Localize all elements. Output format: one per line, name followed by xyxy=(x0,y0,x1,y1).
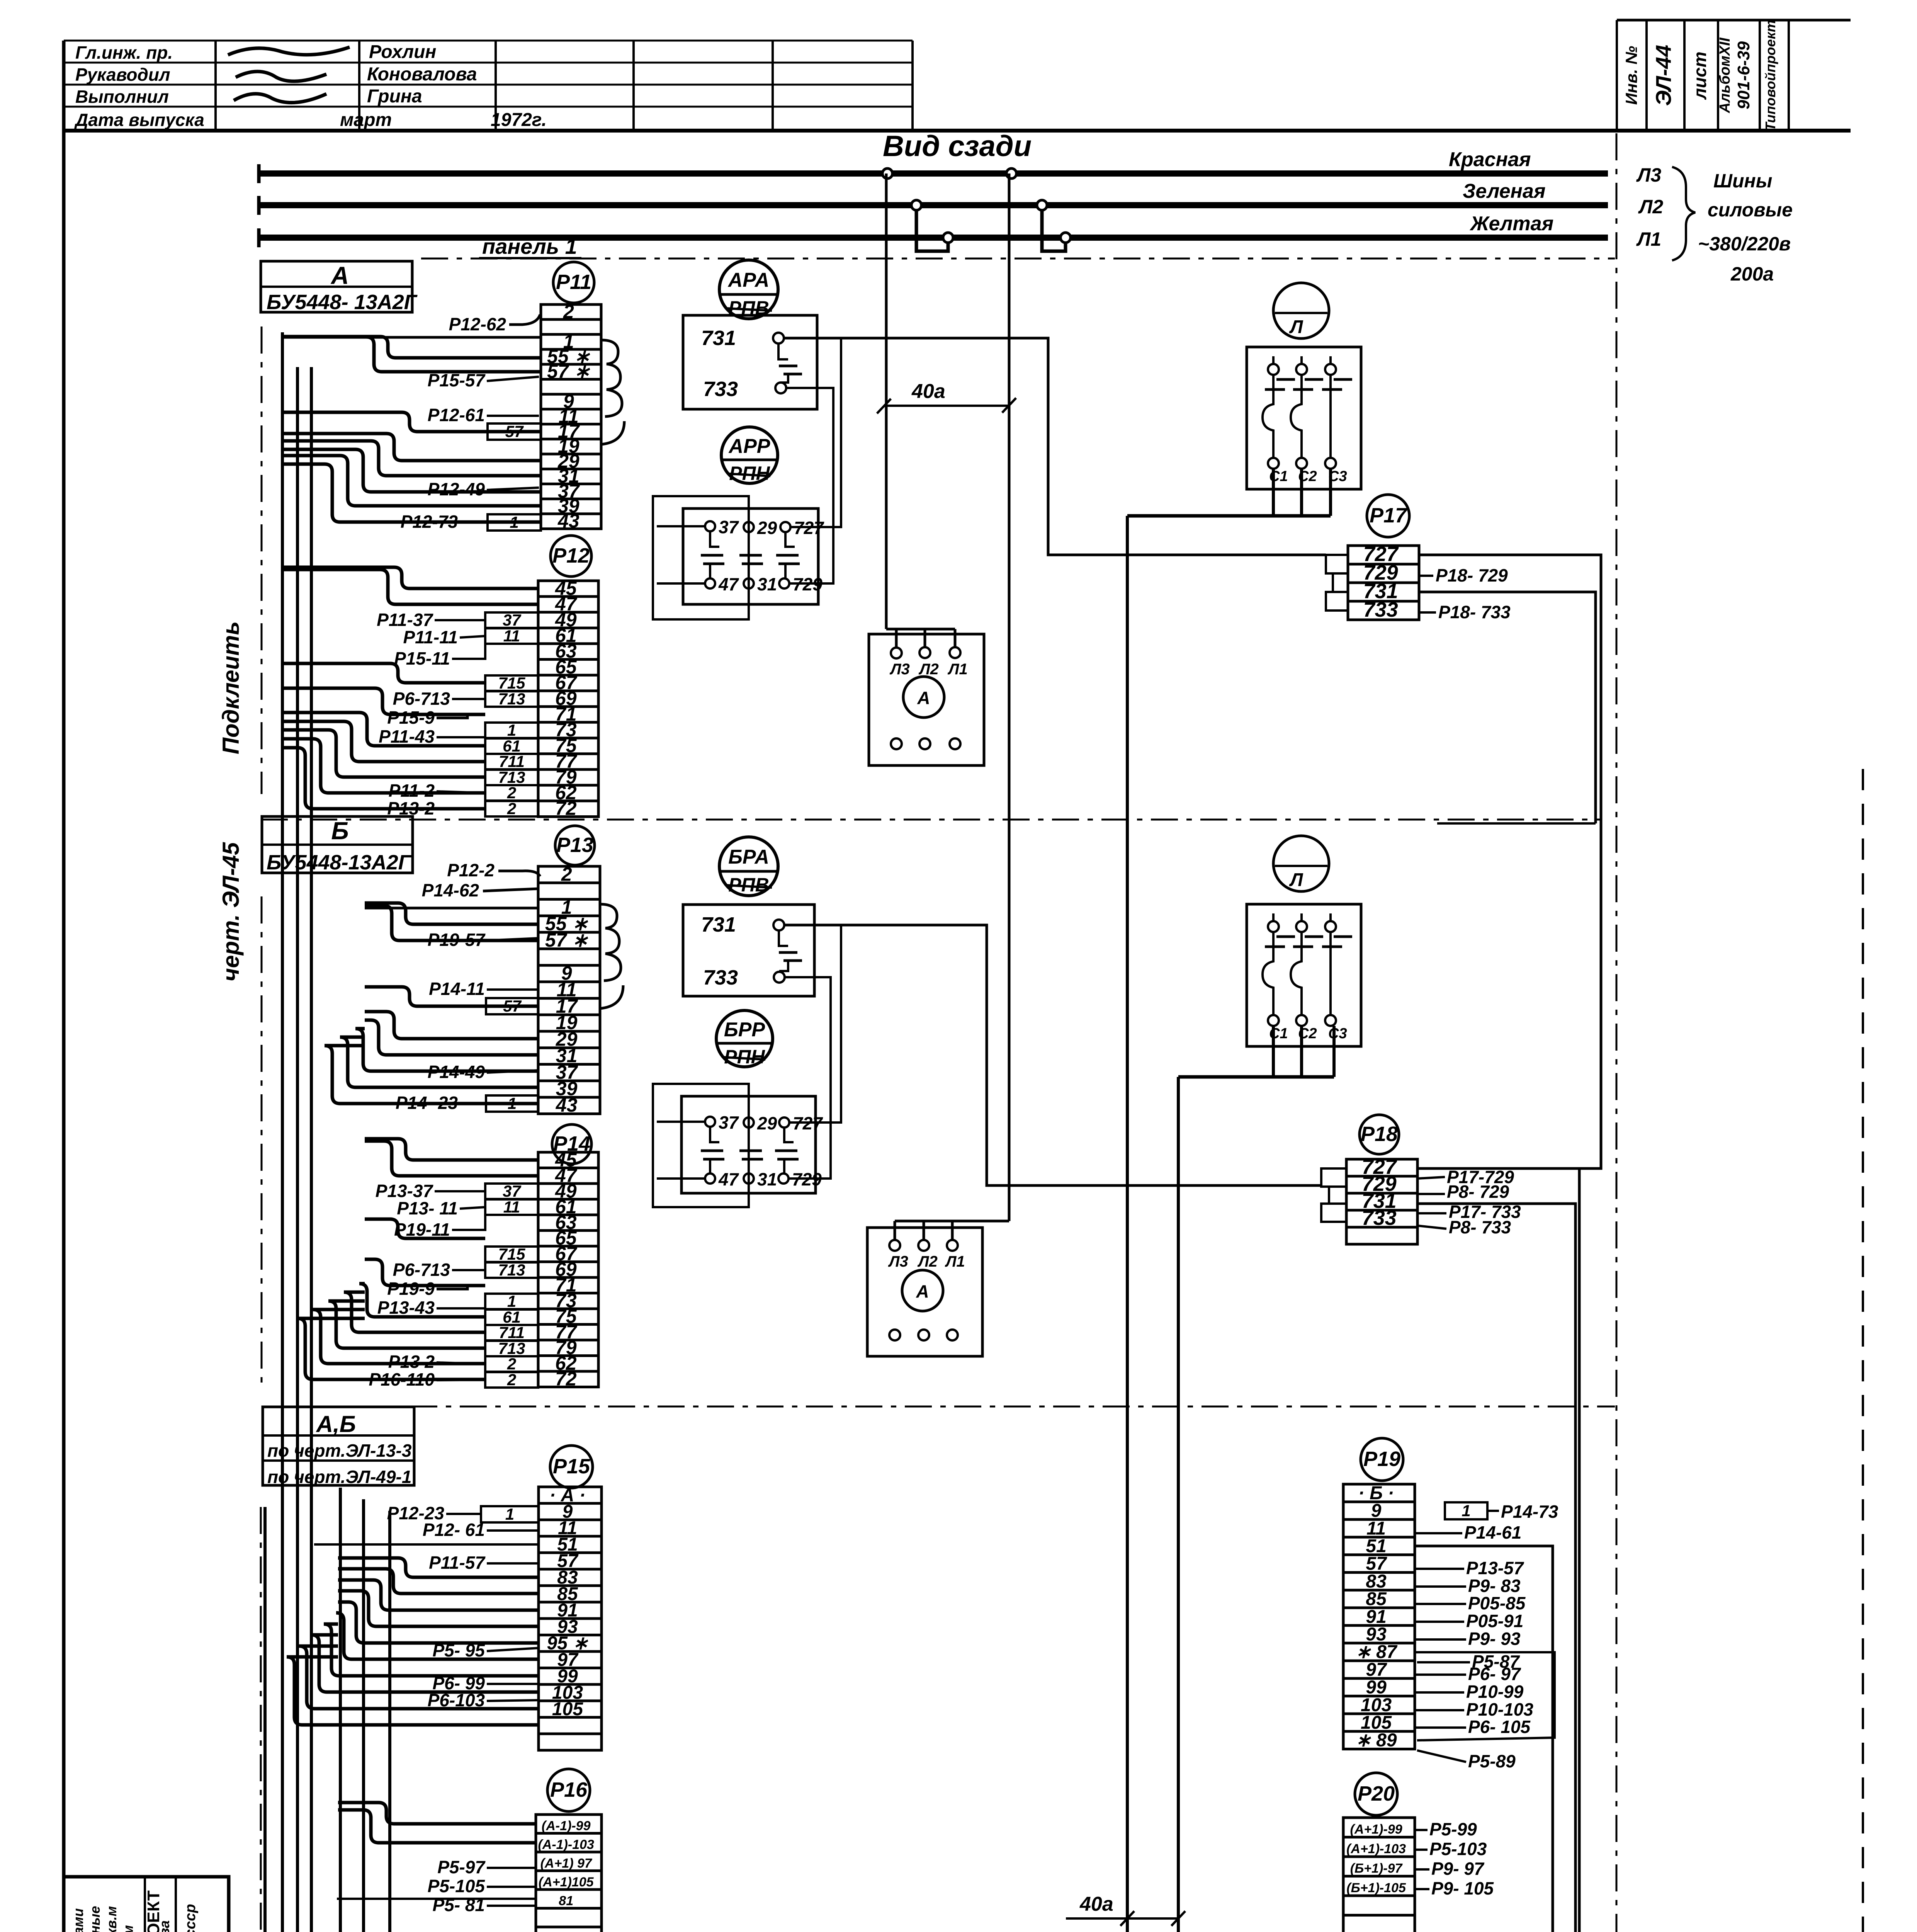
svg-text:С3: С3 xyxy=(1328,1026,1347,1042)
contact terminal 47 Б xyxy=(705,1173,715,1184)
lamp switch box Б xyxy=(1247,904,1361,1046)
ammeter А dial xyxy=(903,677,944,718)
svg-text:733: 733 xyxy=(1363,598,1398,621)
terminal box 61 on Р14 xyxy=(485,1310,538,1325)
Р18 left bracket steps xyxy=(1321,1168,1346,1187)
terminal box 11 on Р12 xyxy=(485,628,538,644)
terminal strip Р13 group xyxy=(396,826,600,1116)
wire into Р15 row 51 xyxy=(314,1543,539,1546)
contact symbol column 2 А xyxy=(748,532,750,547)
terminal strip Р14 group xyxy=(369,1124,598,1389)
svg-text:11: 11 xyxy=(503,627,520,645)
svg-text:Р8- 729: Р8- 729 xyxy=(1447,1182,1509,1202)
terminal strip Р15 group xyxy=(387,1446,602,1750)
svg-text:АРР: АРР xyxy=(728,435,770,457)
wire contact 47 А to left xyxy=(657,582,705,585)
chain border between sections Б and А,Б xyxy=(262,1406,1615,1408)
svg-text:733: 733 xyxy=(1362,1206,1397,1230)
svg-text:Коновалова: Коновалова xyxy=(367,64,477,85)
svg-text:901-6-39: 901-6-39 xyxy=(1734,41,1753,109)
terminal box 1 on Р13 xyxy=(486,1095,538,1112)
svg-text:(Б+1)-97: (Б+1)-97 xyxy=(1350,1861,1403,1876)
svg-text:711: 711 xyxy=(499,752,525,770)
trunk wire vertical 2 xyxy=(310,367,313,1932)
svg-text:200а: 200а xyxy=(1730,263,1774,285)
chain border right vertical xyxy=(1616,133,1618,1932)
svg-text:43: 43 xyxy=(557,510,580,532)
svg-text:Р11-11: Р11-11 xyxy=(403,627,458,647)
svg-text:Л2: Л2 xyxy=(918,661,939,678)
connector designator circle Р17 xyxy=(1367,495,1409,537)
svg-text:Р9- 105: Р9- 105 xyxy=(1431,1878,1494,1898)
contact terminal 727 Б xyxy=(779,1117,789,1128)
svg-text:715: 715 xyxy=(498,674,525,692)
terminal strip Р16 group xyxy=(428,1769,602,1932)
svg-text:Р6-713: Р6-713 xyxy=(393,1260,450,1280)
wire Р19 row87 loop to row89 xyxy=(1415,1652,1555,1740)
svg-text:715: 715 xyxy=(498,1245,525,1263)
signature scribble 1 xyxy=(228,47,350,55)
chain border left vertical upper xyxy=(261,327,263,794)
svg-text:Р19-9: Р19-9 xyxy=(387,1279,435,1299)
terminal box 713 on Р14 xyxy=(485,1262,538,1278)
switch pole 2 А xyxy=(1296,364,1307,375)
chain border between sections А and Б xyxy=(261,819,1600,821)
svg-text:г.Москва: г.Москва xyxy=(156,1920,172,1932)
svg-text:А: А xyxy=(916,1281,929,1301)
auxiliary contact block Б xyxy=(653,1084,749,1207)
terminal strip Р18 group xyxy=(1321,1115,1521,1244)
svg-text:∗ 89: ∗ 89 xyxy=(1356,1730,1397,1751)
panel header box А,Б xyxy=(263,1407,414,1485)
lamp Б pole drops xyxy=(1272,1026,1275,1077)
terminal strip Р11 group xyxy=(401,262,601,532)
wire Р19 row51 right down xyxy=(1415,1546,1553,1932)
svg-text:Б: Б xyxy=(331,817,348,845)
svg-text:Р14-73: Р14-73 xyxy=(1501,1502,1558,1522)
relay designator АРР/РПН xyxy=(721,427,778,483)
svg-text:с деревянным каркасом: с деревянным каркасом xyxy=(120,1925,136,1932)
svg-text:БУ5448-13А2Г: БУ5448-13А2Г xyxy=(267,851,412,874)
svg-text:29: 29 xyxy=(757,1113,777,1133)
panel header box Б xyxy=(262,816,413,873)
wire 731 Б to Р18 xyxy=(784,925,1321,1185)
terminal strip Р17 body xyxy=(1348,546,1419,620)
svg-text:(Б+1)-105: (Б+1)-105 xyxy=(1346,1881,1406,1895)
terminal box 61 on Р12 xyxy=(485,738,538,754)
trunk wire vertical 4 xyxy=(362,1499,365,1932)
wire bundle into Р11 upper xyxy=(284,336,541,339)
chain border left vertical lower xyxy=(260,1507,262,1932)
terminal box 2 on Р12 row72 xyxy=(485,801,538,816)
svg-text:~380/220в: ~380/220в xyxy=(1698,233,1791,255)
junction dot Л1-Б xyxy=(1060,233,1071,243)
terminal strip Р14 body xyxy=(538,1152,598,1387)
svg-text:Л1: Л1 xyxy=(945,1253,965,1270)
ammeter А terminal Л3 xyxy=(891,648,902,658)
svg-text:57 ∗: 57 ∗ xyxy=(547,361,590,382)
svg-text:43: 43 xyxy=(556,1094,578,1116)
wire contact 47 Б to left xyxy=(657,1177,705,1180)
wire chain into trunk at 2131 xyxy=(1437,822,1596,825)
svg-text:Р05-91: Р05-91 xyxy=(1466,1611,1523,1631)
terminal strip Р12 group xyxy=(377,536,598,819)
terminal box 57 on Р13 xyxy=(486,998,538,1014)
trunk wire vertical 7 xyxy=(296,367,299,1932)
wire step Л2-Л1 panel А xyxy=(916,210,948,251)
svg-text:Р14-61: Р14-61 xyxy=(1464,1522,1521,1543)
contact symbol column 3 А xyxy=(785,532,795,547)
svg-text:Зеленая: Зеленая xyxy=(1463,180,1546,202)
contact terminal 37 А xyxy=(705,521,715,531)
contact terminal 729 Б xyxy=(778,1173,789,1184)
lamp switch box А xyxy=(1247,347,1361,489)
svg-text:2: 2 xyxy=(561,863,572,885)
right cut-line dashed border xyxy=(1862,769,1864,1932)
svg-text:Р13-57: Р13-57 xyxy=(1466,1558,1524,1578)
power bus Л1 xyxy=(257,235,1608,241)
svg-text:Рукаводил: Рукаводил xyxy=(75,65,170,85)
wire 727 А up to 731 run xyxy=(790,338,841,527)
svg-text:АРА: АРА xyxy=(727,269,770,291)
svg-text:Р11: Р11 xyxy=(556,270,591,294)
svg-text:Л3: Л3 xyxy=(888,1253,908,1270)
terminal box 2 on Р14 row62 xyxy=(485,1356,538,1372)
wire ammeter А feeder xyxy=(886,628,955,631)
svg-text:Л1: Л1 xyxy=(1636,228,1661,250)
svg-text:Л2: Л2 xyxy=(917,1253,938,1270)
svg-text:(А-1)-99: (А-1)-99 xyxy=(542,1818,591,1833)
svg-text:1: 1 xyxy=(1462,1502,1470,1520)
terminal box 1 on Р15 xyxy=(481,1506,539,1522)
terminal strip Р15 body xyxy=(539,1487,602,1750)
trunk wire vertical 3 xyxy=(339,1488,342,1932)
svg-text:Р5-89: Р5-89 xyxy=(1468,1751,1516,1771)
contact terminal 29 А xyxy=(744,522,754,532)
contact terminal 37 Б xyxy=(705,1117,715,1127)
svg-text:АльбомXII: АльбомXII xyxy=(1717,37,1733,113)
svg-text:Р5-103: Р5-103 xyxy=(1429,1839,1487,1859)
svg-text:(ВЦ), пленочные и капельные: (ВЦ), пленочные и капельные xyxy=(87,1906,103,1932)
terminal box 2 on Р12 row62 xyxy=(485,785,538,801)
terminal box 713b on Р12 xyxy=(485,770,538,785)
terminal box 715 on Р14 xyxy=(485,1247,538,1262)
svg-text:713: 713 xyxy=(498,690,525,708)
lamp designator Л А xyxy=(1273,283,1329,338)
svg-text:Р5-97: Р5-97 xyxy=(437,1857,486,1877)
svg-text:37: 37 xyxy=(719,517,739,537)
title block outer box xyxy=(64,1877,229,1932)
terminal strip Р19 group xyxy=(1343,1438,1558,1771)
svg-text:Р17: Р17 xyxy=(1370,504,1408,527)
contact symbol column 1 Б xyxy=(710,1127,719,1142)
svg-text:Р15: Р15 xyxy=(553,1455,590,1478)
svg-text:Р8- 733: Р8- 733 xyxy=(1449,1217,1511,1237)
svg-text:А: А xyxy=(917,688,930,708)
svg-text:11: 11 xyxy=(503,1198,520,1216)
terminal strip Р13 body xyxy=(538,866,600,1114)
svg-text:силовые: силовые xyxy=(1708,199,1793,221)
switch pole 3 Б xyxy=(1325,921,1336,932)
svg-text:А: А xyxy=(330,262,349,289)
svg-text:Р20: Р20 xyxy=(1358,1782,1395,1805)
ammeter box Б xyxy=(867,1228,982,1356)
svg-text:Выполнил: Выполнил xyxy=(75,87,169,107)
relay contact box 731/733 А xyxy=(683,315,817,409)
svg-text:Р12-62: Р12-62 xyxy=(449,314,506,334)
switch pole 1 Б xyxy=(1268,921,1279,932)
wire Р17 731 to right trunk xyxy=(1419,592,1596,823)
ammeter Б terminal Л1 xyxy=(947,1240,958,1251)
wire Р18 731 down right xyxy=(1417,1204,1575,1932)
switch pole 3 А xyxy=(1325,364,1336,375)
terminal box 57 on Р11 xyxy=(488,423,541,440)
wire 733 А loop xyxy=(786,388,833,583)
svg-text:Л: Л xyxy=(1289,317,1303,337)
ammeter Б terminal Л3 xyxy=(889,1240,900,1251)
svg-text:по черт.ЭЛ-49-1: по черт.ЭЛ-49-1 xyxy=(267,1467,411,1487)
svg-text:март: март xyxy=(340,110,392,130)
auxiliary contact block А xyxy=(653,496,749,619)
svg-text:Р12: Р12 xyxy=(552,544,590,567)
svg-text:Л3: Л3 xyxy=(889,661,910,678)
signature scribble 2 xyxy=(236,71,326,81)
relay designator БРА/РПВ xyxy=(719,837,778,896)
ammeter Б dial xyxy=(902,1270,943,1311)
ammeter А terminal Л1 xyxy=(950,647,960,658)
lamp А bus wire xyxy=(1127,514,1331,518)
svg-text:Гл.инж. пр.: Гл.инж. пр. xyxy=(75,43,173,63)
wire bundle into Р15 xyxy=(338,1558,539,1577)
Р17 left bracket steps xyxy=(1326,555,1348,573)
terminal box 37 on Р14 xyxy=(485,1184,538,1199)
svg-text:2: 2 xyxy=(507,1355,516,1373)
panel header box А xyxy=(261,261,412,312)
svg-text:Инв. №: Инв. № xyxy=(1622,46,1640,105)
connector designator circle Р16 xyxy=(547,1769,590,1811)
svg-text:Р12-49: Р12-49 xyxy=(428,479,485,499)
relay designator АРА/РПВ xyxy=(719,260,778,319)
svg-text:Р9- 93: Р9- 93 xyxy=(1468,1629,1521,1649)
lamp А pole drops xyxy=(1272,469,1275,516)
wire bundle into Р13 lower xyxy=(365,987,538,1006)
wire bundle into Р16 xyxy=(338,1803,536,1824)
svg-text:40а: 40а xyxy=(1079,1893,1113,1915)
contact terminal 47 А xyxy=(705,578,715,588)
svg-text:БРР: БРР xyxy=(724,1019,765,1041)
svg-text:Р11-57: Р11-57 xyxy=(429,1553,486,1573)
trunk wire vertical 6 xyxy=(263,1507,267,1932)
svg-text:Р18- 729: Р18- 729 xyxy=(1436,565,1508,585)
connector designator circle Р11 xyxy=(553,262,594,303)
svg-text:31: 31 xyxy=(757,1169,777,1189)
ammeter А terminal Л2 xyxy=(919,647,930,658)
wire bundle into Р11 lower xyxy=(284,412,541,432)
drawing frame left border xyxy=(62,41,66,1932)
terminal strip Р18 body xyxy=(1346,1159,1417,1244)
wire Р18 727 down right xyxy=(1417,1168,1579,1932)
wire drop Л3 to ammeter Б xyxy=(1008,173,1011,1221)
svg-text:Р11-2: Р11-2 xyxy=(389,781,435,801)
svg-text:731: 731 xyxy=(701,913,736,936)
svg-text:Р6- 97: Р6- 97 xyxy=(1468,1664,1521,1684)
terminal strip Р20 body xyxy=(1343,1818,1415,1932)
wire 727 Б up to 731 Б run xyxy=(790,925,841,1122)
power bus Л3 xyxy=(257,170,1608,177)
svg-text:(А+1)105: (А+1)105 xyxy=(539,1875,594,1889)
svg-text:Р5-99: Р5-99 xyxy=(1429,1819,1477,1839)
contact terminal 31 Б xyxy=(744,1173,754,1184)
terminal box 1 on Р12 row73 xyxy=(485,723,538,738)
connector bumps right of Р13 xyxy=(600,904,621,981)
svg-text:1: 1 xyxy=(507,1292,516,1310)
svg-text:Р10-99: Р10-99 xyxy=(1466,1682,1524,1702)
terminal box 1 on Р11 xyxy=(488,514,541,531)
terminal box 713 on Р12 xyxy=(485,691,538,707)
connector designator circle Р20 xyxy=(1355,1773,1397,1815)
svg-text:Р6-713: Р6-713 xyxy=(393,689,450,709)
motor feed vertical Б xyxy=(1177,1077,1180,1932)
svg-text:БУ5448- 13А2Г: БУ5448- 13А2Г xyxy=(267,291,418,314)
terminal box 1 on Р14 row73 xyxy=(485,1294,538,1309)
contact terminal 29 Б xyxy=(744,1117,754,1128)
relay contact box 731/733 Б xyxy=(683,905,814,996)
svg-text:37: 37 xyxy=(503,611,521,629)
svg-text:с секциями площадью 16кв.м: с секциями площадью 16кв.м xyxy=(104,1906,119,1932)
connector designator circle Р19 xyxy=(1361,1438,1403,1481)
junction dot Л2-Б xyxy=(1037,200,1047,210)
junction dot Л3-А xyxy=(882,168,892,179)
svg-text:Р13 2: Р13 2 xyxy=(388,1352,435,1372)
svg-text:Р16: Р16 xyxy=(550,1778,588,1801)
svg-text:2: 2 xyxy=(563,301,574,322)
contact symbol column 3 Б xyxy=(784,1128,794,1142)
svg-text:2: 2 xyxy=(507,784,516,802)
svg-text:(А+1)-103: (А+1)-103 xyxy=(1346,1842,1406,1856)
svg-text:(А-1)-103: (А-1)-103 xyxy=(538,1837,594,1852)
trunk wire vertical 1 xyxy=(281,332,284,1932)
ammeter А bottom terminals xyxy=(891,738,902,749)
svg-text:Вид сзади: Вид сзади xyxy=(883,130,1032,163)
svg-text:Р12-61: Р12-61 xyxy=(428,405,485,425)
connector designator circle Р12 xyxy=(551,536,591,577)
contact terminal 31 А xyxy=(744,578,754,588)
wire Р17 727 to right trunk xyxy=(1417,555,1601,1168)
terminal strip Р12 body xyxy=(538,581,598,817)
svg-text:Красная: Красная xyxy=(1449,148,1531,171)
svg-text:1: 1 xyxy=(505,1505,514,1523)
connector designator circle Р14 xyxy=(552,1124,591,1164)
junction dot Л2-А xyxy=(911,200,921,210)
svg-text:Л2: Л2 xyxy=(1638,196,1663,218)
switch pole 2 Б xyxy=(1296,921,1307,932)
svg-text:(А+1) 97: (А+1) 97 xyxy=(540,1856,593,1871)
wire bundle into Р14 xyxy=(365,1139,538,1160)
svg-text:Грина: Грина xyxy=(367,86,422,107)
svg-text:Р9- 97: Р9- 97 xyxy=(1431,1859,1485,1879)
terminal box 2 on Р14 row72 xyxy=(485,1372,538,1388)
svg-text:Р18: Р18 xyxy=(1361,1122,1398,1146)
terminal strip Р16 body xyxy=(536,1815,602,1932)
drawing frame top border line xyxy=(64,129,1851,133)
wire bundle into Р13 upper xyxy=(365,907,538,910)
power bus Л2 xyxy=(257,202,1608,208)
ammeter Б bottom terminals xyxy=(889,1330,900,1340)
svg-text:черт. ЭЛ-45: черт. ЭЛ-45 xyxy=(218,842,244,981)
svg-text:Шины: Шины xyxy=(1713,170,1772,192)
svg-text:Р5-105: Р5-105 xyxy=(428,1876,486,1896)
terminal box 1 on Р19 xyxy=(1445,1502,1487,1519)
svg-text:2: 2 xyxy=(507,799,516,818)
svg-text:2: 2 xyxy=(507,1371,516,1389)
wire ammeter Б feeder xyxy=(952,1220,1009,1223)
svg-text:731: 731 xyxy=(701,327,736,350)
contact terminal 729 А xyxy=(779,578,789,588)
svg-text:лист: лист xyxy=(1690,51,1710,100)
svg-text:Градирни с Вентиляторами: Градирни с Вентиляторами xyxy=(70,1908,86,1932)
motor feed vertical А xyxy=(1126,516,1129,1932)
connector designator circle Р15 xyxy=(550,1446,593,1488)
contact symbol column 2 Б xyxy=(748,1128,750,1142)
svg-text:Л3: Л3 xyxy=(1636,164,1661,186)
stamp table top-right grid xyxy=(1617,19,1851,22)
svg-text:1: 1 xyxy=(507,721,516,739)
svg-text:Р13-43: Р13-43 xyxy=(377,1298,435,1318)
wire contact 37 Б to left xyxy=(657,1121,705,1123)
terminal box 37 on Р12 xyxy=(485,612,538,628)
connector designator circle Р18 xyxy=(1360,1115,1399,1154)
svg-text:72: 72 xyxy=(555,798,577,819)
chain border panel 1 top xyxy=(421,258,1615,260)
svg-text:Р19: Р19 xyxy=(1363,1447,1400,1471)
svg-text:40а: 40а xyxy=(911,380,945,403)
connector bumps right of Р11 xyxy=(601,340,622,417)
wire bundle into Р12 xyxy=(284,567,538,588)
title table top-left grid xyxy=(64,40,913,42)
svg-text:Р14-11: Р14-11 xyxy=(429,979,485,999)
relay designator БРР/РПН xyxy=(716,1010,773,1067)
svg-text:Р15-9: Р15-9 xyxy=(387,707,435,728)
svg-text:(А+1)-99: (А+1)-99 xyxy=(1350,1822,1402,1837)
terminal box 11 on Р14 xyxy=(485,1199,538,1215)
chain border left vertical middle xyxy=(261,896,263,1385)
svg-text:Минмонтажспецстрой ссср: Минмонтажспецстрой ссср xyxy=(182,1904,199,1932)
terminal strip Р20 group xyxy=(1343,1773,1494,1932)
switch pole 1 А xyxy=(1268,364,1279,375)
svg-text:105: 105 xyxy=(552,1699,583,1719)
svg-text:733: 733 xyxy=(703,378,738,401)
svg-text:Р05-85: Р05-85 xyxy=(1468,1593,1526,1613)
svg-text:711: 711 xyxy=(499,1323,525,1342)
svg-text:панель 1: панель 1 xyxy=(482,234,577,259)
contact terminal 727 А xyxy=(780,522,790,532)
contact symbol column 1 А xyxy=(710,531,719,547)
lamp Б bus wire xyxy=(1178,1075,1334,1079)
svg-text:А,Б: А,Б xyxy=(316,1411,356,1437)
svg-text:Желтая: Желтая xyxy=(1469,213,1553,235)
svg-text:Подклеить: Подклеить xyxy=(218,621,244,754)
svg-text:Л1: Л1 xyxy=(947,661,968,678)
svg-text:733: 733 xyxy=(703,966,738,989)
terminal strip Р17 group xyxy=(1326,495,1511,622)
svg-text:Рохлин: Рохлин xyxy=(369,42,436,62)
brace for bus group xyxy=(1672,167,1695,260)
svg-text:31: 31 xyxy=(757,574,777,594)
junction dot Л3-Б xyxy=(1006,168,1016,179)
trunk wire vertical 5 xyxy=(388,1511,391,1932)
svg-text:29: 29 xyxy=(757,518,777,538)
svg-text:Р18- 733: Р18- 733 xyxy=(1438,602,1511,622)
